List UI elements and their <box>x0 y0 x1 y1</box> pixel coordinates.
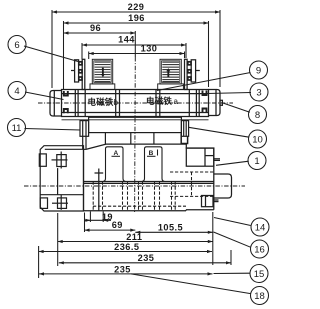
svg-text:105.5: 105.5 <box>158 223 183 233</box>
svg-text:236.5: 236.5 <box>114 242 139 252</box>
hidden bore lines (dashed) <box>170 172 214 196</box>
callout circle 4 <box>8 82 26 100</box>
callout circle 10 <box>249 130 267 148</box>
callout circle 15 <box>250 265 268 283</box>
svg-text:3: 3 <box>256 88 261 99</box>
tube hidden lines left <box>75 90 119 117</box>
leader 14 <box>214 218 251 226</box>
right coil <box>158 59 184 89</box>
dimension 96 <box>64 31 136 34</box>
right terminal block <box>185 59 200 89</box>
dimension 105.5 <box>135 212 213 265</box>
leader 10 <box>189 127 250 137</box>
svg-text:130: 130 <box>141 44 158 54</box>
dimension 229 <box>52 10 220 88</box>
callout circle 8 <box>249 106 267 124</box>
svg-text:14: 14 <box>255 223 266 234</box>
dimension 69 <box>85 213 136 233</box>
sub-band mounting plate <box>62 117 209 136</box>
left port hole center <box>95 169 104 211</box>
svg-text:b: b <box>114 98 119 107</box>
dimension 235 first <box>59 250 231 265</box>
leader 1 <box>216 161 249 165</box>
valve band (yoke front view) <box>62 90 209 117</box>
dimension 19 <box>84 212 111 223</box>
svg-text:9: 9 <box>256 66 261 77</box>
leader 18 <box>131 274 251 294</box>
solenoid axis centerline <box>38 102 233 104</box>
leader 3 <box>208 93 252 94</box>
svg-text:96: 96 <box>90 23 101 33</box>
svg-text:电磁铁: 电磁铁 <box>146 96 172 106</box>
svg-text:6: 6 <box>14 40 19 51</box>
lower view main body <box>84 144 214 211</box>
svg-text:4: 4 <box>14 86 19 97</box>
label A <box>112 150 121 157</box>
subplate bolt lines between views <box>83 133 188 150</box>
callout circle 11 <box>8 119 26 137</box>
leader 6 <box>24 46 78 62</box>
svg-text:211: 211 <box>126 232 142 242</box>
svg-text:电磁铁: 电磁铁 <box>88 97 114 107</box>
left coil <box>90 59 115 89</box>
right bosses <box>202 196 219 207</box>
leader 4 <box>25 92 64 100</box>
svg-text:235: 235 <box>114 264 131 274</box>
label B <box>147 150 158 157</box>
dimension 236.5 <box>39 246 212 278</box>
tube hidden lines right <box>156 90 199 117</box>
callout circle 14 <box>251 218 269 236</box>
left end cap <box>50 91 62 117</box>
right end cap <box>209 90 223 116</box>
callout circle 6 <box>8 36 26 54</box>
callout circle 16 <box>251 240 269 258</box>
callout circle 9 <box>250 61 268 79</box>
lower view horizontal centerline <box>24 185 245 187</box>
svg-text:235: 235 <box>138 253 155 263</box>
callout circle 18 <box>251 287 269 305</box>
right spring cover <box>186 148 220 166</box>
dimension 196 <box>64 21 209 89</box>
svg-text:10: 10 <box>252 135 263 146</box>
leader 8 <box>222 103 250 113</box>
svg-text:69: 69 <box>112 220 123 230</box>
callout circle 1 <box>248 152 266 170</box>
svg-text:8: 8 <box>255 110 260 121</box>
dimension 144 <box>82 43 186 59</box>
tombstone port B <box>142 147 165 182</box>
svg-text:18: 18 <box>254 291 265 302</box>
right protrusion block <box>214 174 232 198</box>
svg-text:1: 1 <box>254 156 259 167</box>
leader 11 <box>25 129 81 131</box>
callout circle 3 <box>250 83 268 101</box>
dimension 130 <box>89 52 185 60</box>
right bracket marks <box>203 91 207 113</box>
svg-text:a: a <box>174 97 179 106</box>
svg-text:196: 196 <box>128 13 145 23</box>
leader 9 <box>157 73 251 91</box>
dimension 211 <box>58 213 213 266</box>
svg-text:229: 229 <box>128 2 145 12</box>
vertical center line <box>134 31 136 57</box>
svg-text:144: 144 <box>118 35 135 45</box>
svg-text:11: 11 <box>12 123 22 134</box>
leader 16 <box>214 232 251 247</box>
dimension 235 second <box>39 272 213 275</box>
lower view left block <box>39 146 83 211</box>
svg-text:16: 16 <box>254 245 265 256</box>
svg-text:15: 15 <box>254 269 265 280</box>
hidden cavity line <box>93 205 186 207</box>
tombstone port A <box>103 147 126 182</box>
left terminal block <box>71 59 85 89</box>
left bracket marks <box>64 91 68 113</box>
leader 15 <box>214 272 251 274</box>
hidden port lines (dashed) <box>93 182 175 211</box>
